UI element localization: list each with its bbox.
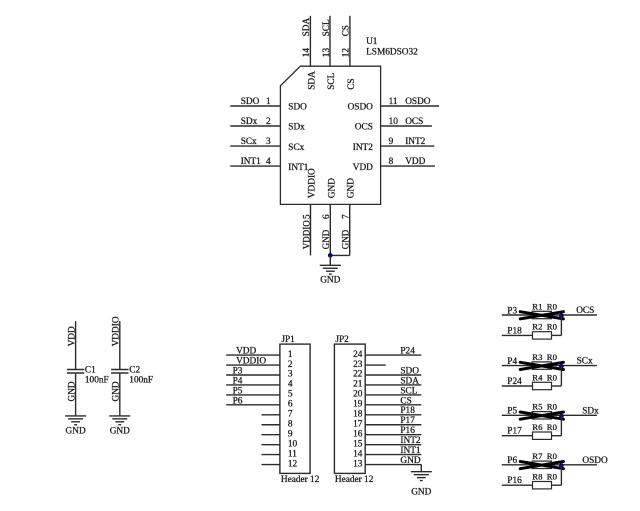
svg-text:12: 12 (288, 459, 298, 469)
svg-text:SDA: SDA (400, 376, 419, 386)
IC U1 LSM6DSO32 body (280, 66, 380, 204)
JP2 pin 18 wire (365, 414, 421, 416)
JP1 pin 10 wire (262, 444, 280, 446)
JP1 pin 5 wire (P5) (226, 394, 280, 396)
svg-text:GND: GND (400, 456, 420, 466)
wire pin7 to junction (330, 254, 349, 256)
svg-text:7: 7 (288, 410, 293, 420)
svg-text:CS: CS (400, 396, 411, 406)
wire R4 to node (552, 385, 562, 387)
svg-text:INT1: INT1 (400, 446, 420, 456)
svg-text:GND: GND (66, 427, 86, 437)
svg-text:P16: P16 (507, 476, 522, 486)
resistor R6 0R (533, 432, 552, 439)
svg-text:Header 12: Header 12 (335, 475, 374, 485)
svg-text:OSDO: OSDO (348, 103, 374, 113)
svg-text:P4: P4 (233, 376, 243, 386)
resistor R7 0R (not fitted) (520, 461, 563, 469)
svg-text:SCL: SCL (400, 386, 417, 396)
svg-text:P17: P17 (400, 416, 415, 426)
svg-text:8: 8 (389, 157, 394, 167)
svg-text:GND: GND (327, 178, 337, 198)
svg-text:P3: P3 (233, 366, 243, 376)
svg-text:INT1: INT1 (288, 163, 308, 173)
svg-text:OCS: OCS (405, 117, 423, 127)
JP2 pin 20 wire (365, 394, 421, 396)
svg-text:SCx: SCx (288, 143, 304, 153)
svg-text:GND: GND (347, 178, 357, 198)
junction dot SCx (559, 364, 564, 369)
wire P24 to R4 (502, 385, 533, 387)
svg-text:GND: GND (320, 275, 340, 285)
JP1 pin 2 wire (VDDIO) (226, 364, 280, 366)
svg-text:R2 R0: R2 R0 (532, 322, 557, 332)
svg-text:GND: GND (67, 381, 77, 401)
svg-text:P17: P17 (507, 427, 522, 437)
connector JP1 body (280, 344, 310, 473)
ground symbol JP2 (411, 472, 432, 481)
svg-text:VDD: VDD (353, 163, 373, 173)
JP2 pin 24 wire (365, 354, 421, 356)
JP1 pin 1 wire (VDD) (226, 354, 280, 356)
svg-text:LSM6DSO32: LSM6DSO32 (366, 48, 418, 58)
JP2 pin 15 wire (365, 444, 421, 446)
svg-text:CS: CS (347, 78, 357, 89)
JP1 pin 9 wire (262, 434, 280, 436)
svg-text:SDO: SDO (400, 366, 419, 376)
svg-text:CS: CS (342, 25, 352, 36)
svg-text:P4: P4 (507, 357, 517, 367)
svg-text:INT1: INT1 (241, 157, 261, 167)
svg-text:20: 20 (353, 390, 363, 400)
JP1 pin 7 wire (262, 414, 280, 416)
JP2 pin 13 wire (365, 464, 421, 466)
svg-text:P5: P5 (233, 386, 243, 396)
svg-text:INT2: INT2 (400, 436, 420, 446)
wire P16 to R8 (502, 484, 533, 486)
wire P18 to R2 (502, 334, 533, 336)
wire C1 to ground (75, 373, 77, 415)
svg-text:13: 13 (353, 459, 363, 469)
resistor R5 0R (not fitted) (520, 412, 563, 420)
svg-text:VDDIO: VDDIO (236, 356, 266, 366)
svg-text:OSDO: OSDO (582, 456, 608, 466)
svg-text:2: 2 (266, 117, 271, 127)
svg-text:JP1: JP1 (281, 335, 295, 345)
svg-text:14: 14 (302, 48, 312, 58)
svg-text:7: 7 (342, 214, 352, 219)
ground symbol C2 (109, 416, 130, 425)
svg-text:C2: C2 (129, 366, 140, 376)
svg-text:INT2: INT2 (405, 137, 425, 147)
wire R2 up to OCS node (560, 315, 562, 335)
U1 pin 11 wire (OSDO) (381, 105, 439, 107)
svg-text:P6: P6 (507, 456, 517, 466)
svg-text:5: 5 (288, 390, 293, 400)
svg-text:2: 2 (288, 360, 293, 370)
svg-text:SDA: SDA (307, 71, 317, 90)
wire R4 up to SCx node (560, 366, 562, 386)
JP2 pin 14 wire (365, 454, 421, 456)
wire P6 to OSDO (502, 464, 597, 466)
JP1 pin 4 wire (P4) (226, 384, 280, 386)
U1 pin 8 wire (VDD) (381, 165, 435, 167)
svg-text:SDO: SDO (288, 103, 307, 113)
wire R6 up to SDx node (560, 415, 562, 435)
svg-text:P18: P18 (400, 406, 415, 416)
svg-text:14: 14 (353, 449, 363, 459)
svg-text:GND: GND (321, 229, 331, 249)
svg-text:VDD: VDD (236, 347, 256, 357)
JP1 pin 12 wire (262, 464, 280, 466)
svg-text:12: 12 (342, 48, 352, 58)
svg-text:SCL: SCL (327, 72, 337, 89)
JP1 pin 6 wire (P6) (226, 404, 280, 406)
svg-text:8: 8 (288, 419, 293, 429)
svg-text:13: 13 (322, 48, 332, 58)
svg-text:SDx: SDx (241, 117, 258, 127)
JP2 pin 23 wire (365, 364, 386, 366)
svg-text:R8 R0: R8 R0 (532, 472, 557, 482)
svg-text:INT2: INT2 (353, 143, 373, 153)
svg-text:3: 3 (266, 137, 271, 147)
svg-text:100nF: 100nF (85, 376, 109, 386)
svg-text:P24: P24 (507, 377, 522, 387)
svg-text:24: 24 (353, 350, 363, 360)
wire VDDIO to C2 (119, 321, 121, 369)
svg-text:OCS: OCS (355, 123, 373, 133)
svg-text:10: 10 (389, 117, 399, 127)
JP1 pin 8 wire (262, 424, 280, 426)
svg-text:OCS: OCS (576, 306, 594, 316)
svg-text:1: 1 (288, 350, 293, 360)
junction dot SDx (559, 414, 564, 419)
connector JP2 body (334, 344, 365, 473)
U1 pin 6 wire (GND) (329, 204, 331, 255)
svg-text:GND: GND (112, 381, 122, 401)
wire R2 to node (552, 334, 562, 336)
resistor R1 0R (not fitted) (520, 311, 563, 319)
ground symbol U1 (320, 265, 341, 274)
resistor R2 0R (533, 332, 552, 339)
svg-text:SCx: SCx (577, 357, 593, 367)
JP1 pin 11 wire (262, 454, 280, 456)
svg-text:VDDIO: VDDIO (308, 168, 318, 198)
U1 pin 1 wire (SDO) (230, 105, 280, 107)
wire P3 to OCS (502, 314, 597, 316)
svg-text:SDA: SDA (302, 18, 312, 37)
svg-text:9: 9 (389, 137, 394, 147)
svg-text:Header 12: Header 12 (281, 475, 320, 485)
wire JP2 pin13 to ground (420, 465, 422, 472)
svg-text:P16: P16 (400, 426, 415, 436)
svg-text:GND: GND (411, 487, 431, 497)
svg-text:R1 R0: R1 R0 (532, 301, 557, 311)
svg-text:22: 22 (353, 370, 363, 380)
svg-text:6: 6 (288, 400, 293, 410)
svg-text:VDDIO: VDDIO (301, 220, 311, 249)
svg-text:15: 15 (353, 439, 363, 449)
svg-text:P5: P5 (507, 407, 517, 417)
U1 pin 4 wire (INT1) (230, 165, 280, 167)
svg-text:OSDO: OSDO (405, 97, 431, 107)
U1 pin 13 wire (SCL) (329, 16, 331, 66)
svg-text:10: 10 (288, 439, 298, 449)
U1 pin 2 wire (SDx) (230, 125, 280, 127)
JP2 pin 17 wire (365, 424, 421, 426)
svg-text:9: 9 (288, 429, 293, 439)
wire P17 to R6 (502, 435, 533, 437)
svg-text:6: 6 (322, 214, 332, 219)
svg-text:SCx: SCx (241, 137, 257, 147)
JP2 pin 16 wire (365, 434, 421, 436)
svg-text:R7 R0: R7 R0 (532, 451, 557, 461)
capacitor C2 (111, 370, 128, 374)
U1 pin 3 wire (SCx) (230, 145, 280, 147)
svg-text:R6 R0: R6 R0 (532, 422, 557, 432)
svg-text:5: 5 (302, 214, 312, 219)
resistor R4 0R (533, 382, 552, 389)
wire VDD to C1 (75, 321, 77, 369)
svg-text:4: 4 (288, 380, 293, 390)
wire junction to ground (329, 255, 331, 265)
U1 designator label (366, 37, 418, 58)
U1 pin 14 wire (SDA) (309, 16, 311, 66)
svg-text:C1: C1 (85, 366, 96, 376)
svg-text:1: 1 (266, 97, 271, 107)
svg-text:JP2: JP2 (335, 335, 349, 345)
svg-text:SDO: SDO (241, 97, 260, 107)
svg-text:SDx: SDx (288, 123, 305, 133)
svg-text:R3 R0: R3 R0 (532, 352, 557, 362)
svg-text:16: 16 (353, 429, 363, 439)
U1 pin 7 wire (GND) (349, 204, 351, 255)
wire P4 to SCx (502, 365, 597, 367)
svg-text:3: 3 (288, 370, 293, 380)
svg-text:100nF: 100nF (129, 376, 153, 386)
svg-text:U1: U1 (366, 37, 378, 47)
junction dot at GND node (328, 253, 333, 258)
wire R8 to node (552, 484, 562, 486)
svg-text:P6: P6 (233, 396, 243, 406)
wire R6 to node (552, 435, 562, 437)
svg-text:P18: P18 (507, 326, 522, 336)
svg-text:19: 19 (353, 400, 363, 410)
svg-text:11: 11 (288, 449, 297, 459)
junction dot OSDO (559, 463, 564, 468)
svg-text:GND: GND (341, 229, 351, 249)
svg-text:R4 R0: R4 R0 (532, 372, 557, 382)
U1 pin 12 wire (CS) (349, 16, 351, 66)
svg-text:P24: P24 (400, 347, 415, 357)
svg-text:21: 21 (353, 380, 363, 390)
JP2 pin 19 wire (365, 404, 421, 406)
JP1 pin 3 wire (P3) (226, 374, 280, 376)
U1 pin 9 wire (INT2) (381, 145, 435, 147)
wire P5 to SDx (502, 414, 597, 416)
svg-text:17: 17 (353, 419, 363, 429)
svg-text:P3: P3 (507, 306, 517, 316)
resistor R8 0R (533, 482, 552, 489)
ground symbol C1 (65, 416, 86, 425)
JP2 pin 22 wire (365, 374, 421, 376)
resistor R3 0R (not fitted) (520, 362, 563, 370)
junction dot OCS (559, 313, 564, 318)
wire C2 to ground (119, 373, 121, 415)
U1 pin 5 wire (VDDIO) (310, 204, 312, 255)
svg-text:SDx: SDx (582, 406, 599, 416)
svg-text:R5 R0: R5 R0 (532, 402, 557, 412)
svg-text:SCL: SCL (322, 19, 332, 36)
svg-text:GND: GND (110, 427, 130, 437)
capacitor C1 (67, 370, 84, 374)
U1 pin 10 wire (OCS) (381, 125, 432, 127)
svg-text:11: 11 (389, 97, 398, 107)
svg-text:VDD: VDD (405, 157, 425, 167)
JP2 pin 21 wire (365, 384, 421, 386)
svg-text:18: 18 (353, 410, 363, 420)
svg-text:4: 4 (266, 157, 271, 167)
wire R8 up to OSDO node (560, 465, 562, 485)
svg-text:23: 23 (353, 360, 363, 370)
